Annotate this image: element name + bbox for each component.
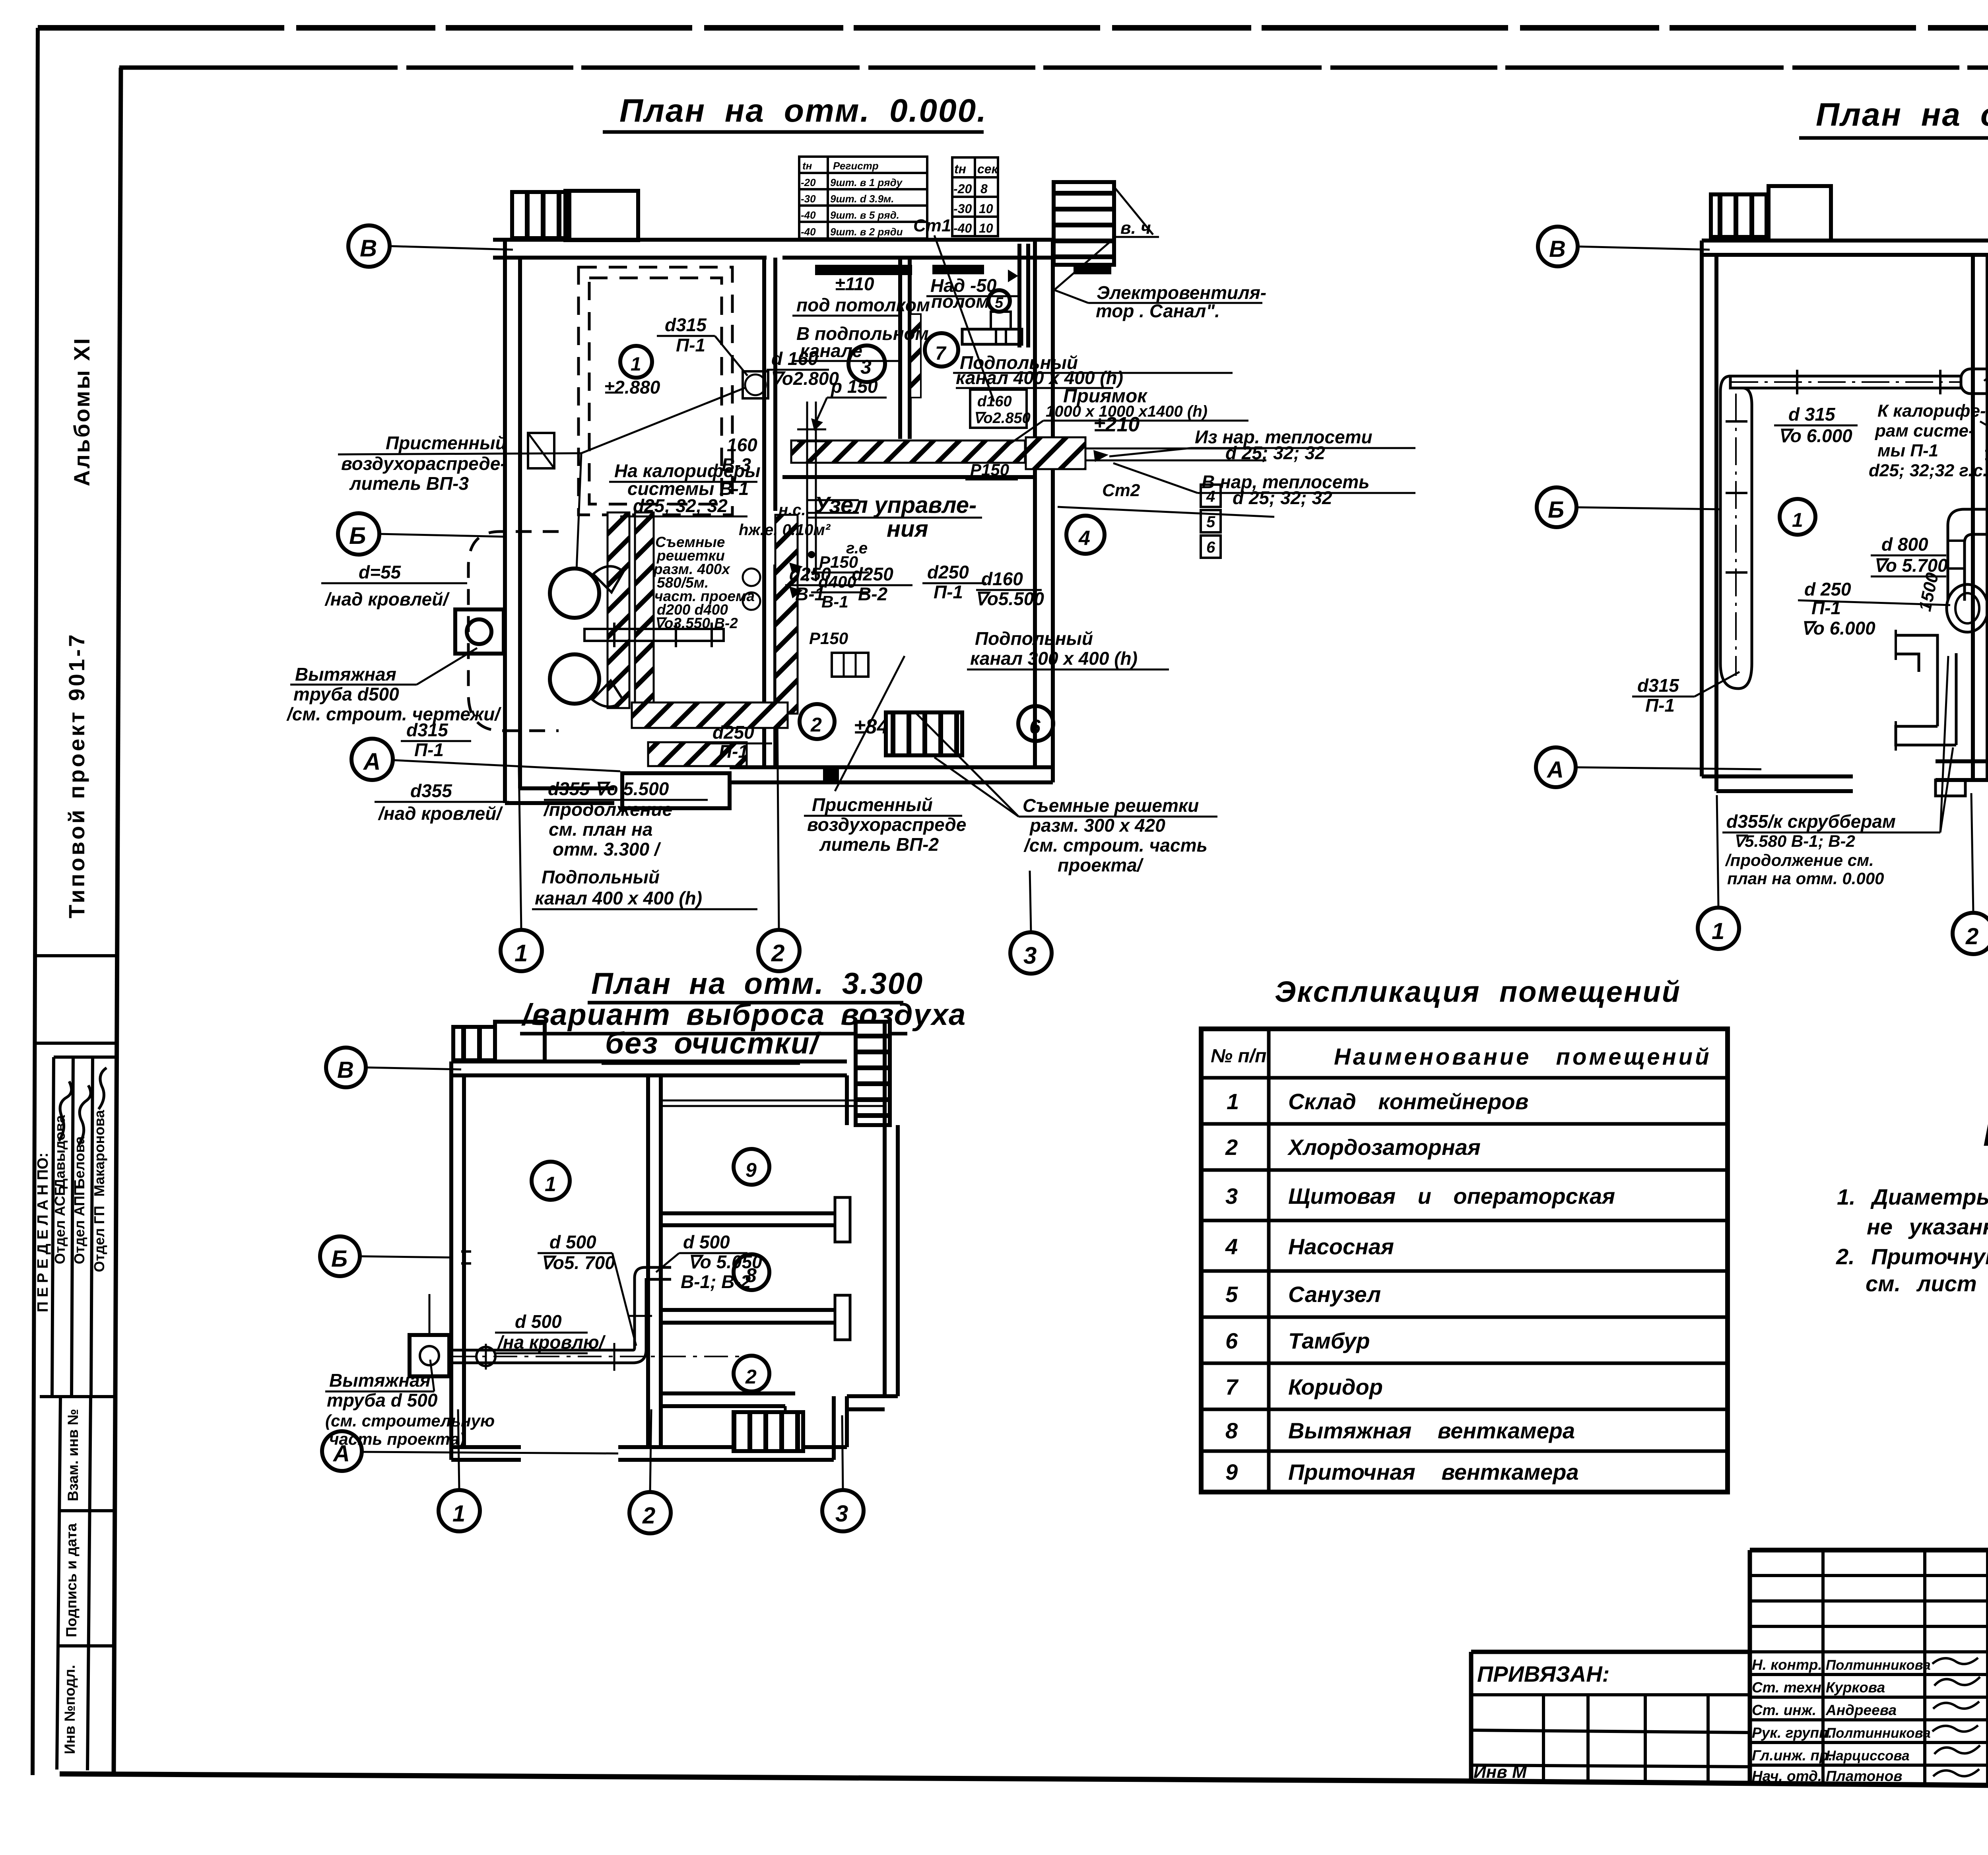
svg-text:5: 5 xyxy=(1206,513,1215,531)
svg-text:мы П-1: мы П-1 xyxy=(1877,441,1938,460)
axis circle 2 xyxy=(1953,913,1988,954)
svg-text:∇о 5.700: ∇о 5.700 xyxy=(1873,555,1948,576)
svg-text:Давыдова: Давыдова xyxy=(52,1115,68,1189)
svg-text:∇о5.500: ∇о5.500 xyxy=(975,588,1044,609)
inner wall vertical right xyxy=(898,258,902,439)
svg-text:Подпольный: Подпольный xyxy=(975,628,1093,649)
svg-text:8: 8 xyxy=(980,182,988,196)
svg-text:/над кровлей/: /над кровлей/ xyxy=(324,589,450,609)
svg-text:без очистки/: без очистки/ xyxy=(605,1026,821,1060)
room9 wall xyxy=(1988,286,1988,290)
svg-text:Типовой проект 901-7: Типовой проект 901-7 xyxy=(64,632,89,918)
room circle 1 xyxy=(620,346,652,378)
svg-text:d25; 32; 32: d25; 32; 32 xyxy=(633,495,728,516)
svg-text:-40: -40 xyxy=(801,209,816,221)
bottom-right wall xyxy=(730,765,1053,769)
radiator top-left xyxy=(453,1027,495,1060)
svg-text:∇о 5.050: ∇о 5.050 xyxy=(688,1252,762,1272)
svg-text:труба d 500: труба d 500 xyxy=(327,1390,438,1411)
svg-text:Куркова: Куркова xyxy=(1826,1679,1885,1696)
svg-text:d 25; 32; 32: d 25; 32; 32 xyxy=(1225,442,1325,463)
svg-text:tн: tн xyxy=(954,162,966,176)
svg-text:6: 6 xyxy=(1225,1328,1238,1353)
svg-text:проекта/: проекта/ xyxy=(1058,855,1144,875)
main duct xyxy=(449,1349,633,1352)
svg-text:Инв №подл.: Инв №подл. xyxy=(62,1665,78,1754)
svg-text:d 500: d 500 xyxy=(549,1232,596,1252)
bottom-left wall xyxy=(505,801,614,805)
svg-text:Пристенный: Пристенный xyxy=(386,433,507,453)
axis circle Б xyxy=(1537,487,1576,527)
svg-text:∇5.580 В-1; В-2: ∇5.580 В-1; В-2 xyxy=(1734,832,1855,850)
svg-text:План на отм. 0.000.: План на отм. 0.000. xyxy=(619,93,987,129)
svg-text:Вытяжная: Вытяжная xyxy=(329,1370,431,1391)
registr table xyxy=(799,157,927,239)
svg-text:/см. строит. чертежи/: /см. строит. чертежи/ xyxy=(286,704,501,724)
EXPL xyxy=(1201,975,1728,1492)
svg-text:план на отм. 0.000: план на отм. 0.000 xyxy=(1727,869,1884,888)
room circle 2 xyxy=(800,704,835,739)
svg-text:9шт. d 3.9м.: 9шт. d 3.9м. xyxy=(830,193,894,205)
svg-text:2: 2 xyxy=(810,714,822,736)
svg-text:160: 160 xyxy=(727,435,757,455)
stairs top right xyxy=(1054,182,1114,265)
left wall xyxy=(449,1061,453,1460)
svg-text:d250: d250 xyxy=(927,562,969,582)
svg-text:К калорифе-: К калорифе- xyxy=(1877,401,1986,421)
svg-text:1. Диаметры труб системы: 1. Диаметры труб системы отопления, xyxy=(1837,1184,1988,1209)
svg-text:-30: -30 xyxy=(953,202,972,216)
svg-text:9шт. в 2 ряди: 9шт. в 2 ряди xyxy=(830,226,903,238)
svg-text:Подпись и дата: Подпись и дата xyxy=(63,1523,80,1637)
svg-text:d355 ∇о 5.500: d355 ∇о 5.500 xyxy=(548,778,669,799)
room circle 6 xyxy=(1018,706,1053,741)
dark bands under top wall xyxy=(815,265,912,275)
svg-text:Полтинникова: Полтинникова xyxy=(1826,1657,1931,1673)
wall above stairs room 2 xyxy=(661,1391,795,1395)
svg-text:1: 1 xyxy=(452,1501,465,1527)
outer top of title block xyxy=(1750,1548,1988,1552)
svg-text:10: 10 xyxy=(979,221,993,235)
svg-text:Санузел: Санузел xyxy=(1288,1282,1381,1307)
svg-text:1: 1 xyxy=(1792,509,1803,531)
signature rows xyxy=(1752,1657,1931,1784)
TITLES xyxy=(520,93,1988,1063)
svg-text:труба d500: труба d500 xyxy=(293,684,399,704)
center elbow duct complex xyxy=(1948,509,1988,601)
svg-text:Альбомы XI: Альбомы XI xyxy=(69,337,94,486)
thin heat pipe xyxy=(1985,450,1988,452)
stairs bottom middle xyxy=(886,712,962,755)
outer left border xyxy=(33,28,38,1775)
radiator top-left xyxy=(1711,194,1767,237)
outer top dashed border xyxy=(38,25,1988,31)
svg-text:Ст1: Ст1 xyxy=(913,216,951,235)
svg-text:В-3: В-3 xyxy=(722,454,751,475)
room circles 3,7,5 xyxy=(848,345,885,382)
svg-text:1: 1 xyxy=(1712,918,1724,944)
svg-text:4: 4 xyxy=(1225,1234,1238,1259)
tall stairs top right xyxy=(856,1022,890,1125)
svg-text:Р150: Р150 xyxy=(809,629,848,648)
svg-text:∇о3.550 В-2: ∇о3.550 В-2 xyxy=(654,615,738,631)
svg-text:воздухораспреде: воздухораспреде xyxy=(807,814,966,835)
svg-text:d355: d355 xyxy=(410,780,452,801)
svg-text:1: 1 xyxy=(545,1173,556,1196)
bottom frame line xyxy=(60,1774,1988,1790)
svg-text:d250: d250 xyxy=(852,564,893,584)
svg-text:1: 1 xyxy=(1227,1089,1239,1114)
svg-text:2: 2 xyxy=(1965,924,1978,949)
svg-text:Рук. групп.: Рук. групп. xyxy=(1752,1725,1832,1741)
svg-text:Отдел ГП: Отдел ГП xyxy=(91,1206,107,1272)
room 1 dashed rect xyxy=(579,267,732,515)
svg-text:Андреева: Андреева xyxy=(1825,1702,1897,1718)
svg-text:П-1: П-1 xyxy=(1645,695,1675,716)
svg-text:-20: -20 xyxy=(801,177,816,188)
inner wall vertical mid xyxy=(762,258,766,767)
top wall xyxy=(1702,239,1988,243)
svg-text:часть проекта): часть проекта) xyxy=(329,1430,465,1448)
svg-text:Р150: Р150 xyxy=(970,460,1009,479)
svg-text:Пристенный: Пристенный xyxy=(812,794,933,815)
svg-text:tн: tн xyxy=(802,160,812,172)
axis circle B xyxy=(348,225,390,267)
axis circle B xyxy=(326,1048,366,1087)
svg-text:литель ВП-3: литель ВП-3 xyxy=(349,473,469,494)
boxes 4 5 6 xyxy=(1201,485,1221,507)
svg-text:Примечания:: Примечания: xyxy=(1983,1118,1988,1153)
svg-text:П Е Р Е Д Е Л А Н ПО:: П Е Р Е Д Е Л А Н ПО: xyxy=(35,1153,51,1312)
top wall xyxy=(451,1059,847,1063)
svg-text:канал 400 х 400 (h): канал 400 х 400 (h) xyxy=(535,888,702,908)
PLAN1 xyxy=(338,157,1274,974)
wall under room 9 xyxy=(661,1211,835,1215)
svg-text:Б: Б xyxy=(349,522,366,549)
left wall xyxy=(503,240,507,803)
axis circle 1 xyxy=(501,930,542,971)
svg-text:3: 3 xyxy=(835,1501,848,1527)
svg-text:н.с.: н.с. xyxy=(779,501,806,519)
svg-text:9шт. в 1 ряду: 9шт. в 1 ряду xyxy=(830,177,903,188)
svg-text:Хлордозаторная: Хлордозаторная xyxy=(1287,1135,1481,1160)
svg-text:d=55: d=55 xyxy=(359,562,402,582)
svg-text:Коридор: Коридор xyxy=(1288,1374,1383,1399)
axis circle 1 xyxy=(439,1490,480,1531)
svg-text:канал 300 х 400 (h): канал 300 х 400 (h) xyxy=(970,648,1138,669)
svg-text:d 315: d 315 xyxy=(1788,404,1836,425)
VP-2 distributor xyxy=(832,653,868,677)
svg-text:d355/к скрубберам: d355/к скрубберам xyxy=(1726,811,1896,832)
grille circles xyxy=(743,569,760,586)
heat pipes out right xyxy=(1085,448,1266,450)
svg-text:/на кровлю/: /на кровлю/ xyxy=(497,1332,606,1352)
svg-text:d250: d250 xyxy=(712,722,754,743)
left wall xyxy=(1700,241,1704,776)
black square bottom wall xyxy=(823,767,839,782)
axis circle 3 xyxy=(1010,932,1052,974)
svg-text:сек: сек xyxy=(977,162,999,176)
svg-text:Регистр: Регистр xyxy=(833,160,879,172)
svg-text:канале: канале xyxy=(800,340,862,361)
svg-text:Ст2: Ст2 xyxy=(1102,481,1140,500)
svg-text:отм. 3.300 /: отм. 3.300 / xyxy=(553,839,661,860)
top wall xyxy=(493,238,1053,242)
svg-text:Экспликация помещений: Экспликация помещений xyxy=(1275,975,1681,1008)
axis circle Б xyxy=(338,513,379,555)
svg-text:2: 2 xyxy=(1225,1135,1238,1160)
svg-text:d 800: d 800 xyxy=(1881,534,1928,555)
svg-text:±2.880: ±2.880 xyxy=(604,377,660,398)
svg-text:ния: ния xyxy=(887,516,928,542)
svg-text:7: 7 xyxy=(1225,1374,1239,1399)
svg-text:±110: ±110 xyxy=(835,274,874,294)
bottom-right wall xyxy=(618,1445,847,1449)
svg-text:-40: -40 xyxy=(801,226,816,238)
svg-text:d315: d315 xyxy=(665,314,707,335)
svg-text:литель ВП-2: литель ВП-2 xyxy=(819,834,939,855)
inner vertical wall xyxy=(1971,255,1975,778)
elbow up xyxy=(633,1278,646,1363)
svg-text:Вытяжная венткамера: Вытяжная венткамера xyxy=(1288,1418,1575,1443)
top bump xyxy=(1769,186,1831,241)
svg-text:Платонов: Платонов xyxy=(1826,1768,1903,1784)
svg-text:d160: d160 xyxy=(977,393,1012,410)
pipe risers uzel upravleniya xyxy=(806,402,808,581)
bottom protrusion xyxy=(622,773,730,808)
svg-text:В: В xyxy=(1549,236,1566,262)
svg-text:6: 6 xyxy=(1029,716,1041,738)
bottom-left wall xyxy=(451,1445,521,1449)
svg-text:воздухораспреде-: воздухораспреде- xyxy=(341,453,507,474)
svg-text:В-1: В-1 xyxy=(821,592,848,611)
svg-text:d 25; 32; 32: d 25; 32; 32 xyxy=(1233,487,1332,508)
svg-text:р 150: р 150 xyxy=(830,376,878,397)
axis circle Б xyxy=(320,1236,360,1276)
svg-text:2: 2 xyxy=(642,1503,655,1529)
svg-text:d 250: d 250 xyxy=(1804,579,1851,600)
bottom-right wall xyxy=(1936,759,1988,763)
svg-text:Б: Б xyxy=(331,1246,348,1272)
TBLOCK xyxy=(1471,1550,1988,1839)
right wall xyxy=(883,1022,887,1396)
d160 2.850 small right xyxy=(970,390,1027,428)
room circle 4 xyxy=(1066,516,1105,554)
axis circle A xyxy=(351,739,393,780)
svg-text:6: 6 xyxy=(1206,539,1215,556)
wall room5/7 xyxy=(1017,244,1021,347)
svg-text:∇о 6.000: ∇о 6.000 xyxy=(1801,618,1875,638)
svg-text:В: В xyxy=(337,1057,354,1083)
attribute strip xyxy=(57,1397,60,1770)
svg-text:рам систе-: рам систе- xyxy=(1875,421,1974,440)
svg-text:Щитовая и операторская: Щитовая и операторская xyxy=(1288,1184,1615,1209)
dashed duct loop left xyxy=(468,532,559,731)
k kaloriferam xyxy=(1869,401,1988,480)
inner wall horizontal below rooms 3/7 xyxy=(782,475,1035,479)
svg-text:1000 х 1000 х1400 (h): 1000 х 1000 х1400 (h) xyxy=(1046,403,1208,420)
fan circles xyxy=(550,569,599,618)
svg-text:Нач. отд.: Нач. отд. xyxy=(1752,1768,1822,1784)
svg-text:под потолком: под потолком xyxy=(796,295,930,315)
svg-text:∇о2.800: ∇о2.800 xyxy=(770,368,839,389)
svg-text:d 500: d 500 xyxy=(515,1311,562,1332)
hatched shaft walls xyxy=(608,512,629,708)
supply duct horizontal xyxy=(1730,376,1961,388)
svg-text:канал 400 х 400 (h): канал 400 х 400 (h) xyxy=(956,367,1123,388)
thin beam line room9 xyxy=(661,1100,885,1102)
svg-text:Б: Б xyxy=(1548,497,1564,523)
svg-text:(см. строительную: (см. строительную xyxy=(325,1411,495,1430)
sidebar stamp table xyxy=(36,954,116,957)
svg-text:разм. 300 х 420: разм. 300 х 420 xyxy=(1029,815,1165,836)
svg-text:Наименование помещений: Наименование помещений xyxy=(1334,1044,1712,1070)
svg-text:hж.е. 0.10м²: hж.е. 0.10м² xyxy=(739,521,831,539)
svg-text:В-1: В-1 xyxy=(795,584,825,604)
axis circle A xyxy=(322,1431,362,1471)
privyazan grid xyxy=(1471,1693,1750,1696)
svg-text:/над кровлей/: /над кровлей/ xyxy=(378,803,503,824)
svg-text:-20: -20 xyxy=(953,182,972,196)
svg-text:в. ч: в. ч xyxy=(1120,218,1151,238)
room circles xyxy=(532,1162,570,1200)
svg-text:/продолжение см.: /продолжение см. xyxy=(1725,851,1874,869)
svg-text:№ п/п: № п/п xyxy=(1211,1046,1266,1067)
svg-text:В: В xyxy=(360,235,377,262)
fan box left xyxy=(410,1335,449,1376)
wall under room 8 xyxy=(1988,631,1988,635)
S duct lower left xyxy=(1896,635,1938,653)
svg-text:Ст. техн.: Ст. техн. xyxy=(1752,1679,1825,1696)
svg-text:2. Приточную и вытяжку: 2. Приточную и вытяжку венткамеры xyxy=(1836,1244,1988,1269)
svg-text:В-2: В-2 xyxy=(858,584,888,604)
svg-text:3: 3 xyxy=(1225,1184,1238,1209)
svg-text:В-1; В-2: В-1; В-2 xyxy=(681,1271,751,1292)
svg-text:Макаронова: Макаронова xyxy=(91,1110,107,1197)
svg-text:1: 1 xyxy=(631,354,641,375)
svg-text:d160: d160 xyxy=(981,569,1023,589)
axis circle A xyxy=(1536,747,1576,787)
svg-text:d25; 32;32 г.с.: d25; 32;32 г.с. xyxy=(1869,461,1988,480)
svg-text:/см. строит. часть: /см. строит. часть xyxy=(1023,835,1208,856)
svg-text:9шт. в 5 ряд.: 9шт. в 5 ряд. xyxy=(830,209,899,221)
svg-text:см. план на: см. план на xyxy=(549,819,652,840)
svg-text:Инв М: Инв М xyxy=(1474,1762,1527,1782)
svg-text:Насосная: Насосная xyxy=(1288,1234,1394,1259)
svg-text:Приточная венткамера: Приточная венткамера xyxy=(1288,1459,1579,1484)
small tn/sek table xyxy=(952,157,998,236)
svg-text:d315: d315 xyxy=(1637,675,1679,696)
pipe with flanges xyxy=(584,629,724,641)
axis circle 2 xyxy=(758,930,800,971)
svg-text:5: 5 xyxy=(1225,1282,1238,1307)
svg-text:-40: -40 xyxy=(953,221,972,235)
svg-text:/продолжение: /продолжение xyxy=(543,799,672,820)
inner top border xyxy=(119,66,1988,70)
svg-text:Отдел АПП: Отдел АПП xyxy=(71,1186,87,1264)
svg-text:А: А xyxy=(1546,757,1564,783)
svg-text:10: 10 xyxy=(979,202,993,216)
axis circle 3 xyxy=(822,1490,864,1531)
signature table xyxy=(1748,1550,1752,1783)
svg-text:d250: d250 xyxy=(789,564,831,584)
damper square room1 xyxy=(743,371,768,398)
radiator block top-left xyxy=(512,192,569,238)
svg-text:∇о5. 700: ∇о5. 700 xyxy=(541,1252,615,1273)
inner vertical wall xyxy=(646,1075,650,1447)
top bump xyxy=(495,1022,545,1061)
inner left border xyxy=(114,68,121,1773)
fan shaft box xyxy=(455,609,504,654)
svg-text:Н. контр.: Н. контр. xyxy=(1752,1657,1822,1673)
svg-text:-30: -30 xyxy=(801,193,816,205)
axis circle B xyxy=(1538,227,1578,266)
svg-text:П-1: П-1 xyxy=(414,739,444,760)
axis circle 1 xyxy=(1698,908,1739,949)
svg-text:Подпольный: Подпольный xyxy=(542,867,660,887)
svg-text:План на отм 3.300: План на отм 3.300 xyxy=(1816,97,1988,133)
svg-text:9: 9 xyxy=(745,1159,757,1181)
svg-text:Отдел АСБ: Отдел АСБ xyxy=(52,1186,68,1264)
svg-text:Вытяжная: Вытяжная xyxy=(295,664,396,685)
svg-text:не указанные на планах,: не указанные на планах, принять d=15мм xyxy=(1867,1214,1988,1239)
axis circle 2 xyxy=(629,1492,671,1533)
svg-text:ПРИВЯЗАН:: ПРИВЯЗАН: xyxy=(1477,1661,1609,1686)
svg-text:Гл.инж. пр.: Гл.инж. пр. xyxy=(1752,1747,1833,1764)
svg-text:9: 9 xyxy=(1225,1459,1238,1484)
svg-text:П-1: П-1 xyxy=(934,582,963,602)
svg-text:3: 3 xyxy=(1023,942,1037,969)
wall under room 8 xyxy=(661,1308,835,1312)
svg-text:8: 8 xyxy=(1225,1418,1238,1443)
svg-text:А: А xyxy=(363,748,381,775)
svg-text:∇о2.850: ∇о2.850 xyxy=(973,410,1031,427)
svg-text:Съемные решетки: Съемные решетки xyxy=(1023,795,1199,816)
svg-text:П-1: П-1 xyxy=(676,335,705,355)
svg-text:Тамбур: Тамбур xyxy=(1288,1328,1370,1353)
svg-text:Ст. инж.: Ст. инж. xyxy=(1752,1702,1816,1718)
top vestibule bump xyxy=(565,191,638,240)
svg-text:Электровентиля-: Электровентиля- xyxy=(1097,282,1266,303)
svg-text:Взам. инв №: Взам. инв № xyxy=(65,1409,81,1502)
svg-text:Нарциссова: Нарциссова xyxy=(1826,1748,1910,1764)
svg-text:см. лист 0В-5: см. лист 0В-5 xyxy=(1866,1271,1988,1296)
svg-text:4: 4 xyxy=(1078,527,1090,550)
right wall xyxy=(1033,240,1037,767)
svg-text:Склад контейнеров: Склад контейнеров xyxy=(1288,1089,1528,1114)
съемные решетки mid block xyxy=(653,534,755,631)
svg-text:Узел управле-: Узел управле- xyxy=(814,492,977,518)
svg-text:7: 7 xyxy=(935,343,947,364)
svg-text:∇о 6.000: ∇о 6.000 xyxy=(1778,425,1852,446)
svg-text:г.е: г.е xyxy=(846,539,868,557)
bottom-left wall xyxy=(1702,774,1853,778)
NOTES xyxy=(1836,1118,1988,1296)
svg-text:Полтинникова: Полтинникова xyxy=(1826,1725,1931,1741)
PLAN2 xyxy=(1536,184,1988,954)
VP-3 wall distributor xyxy=(528,433,554,468)
svg-text:2: 2 xyxy=(771,940,784,966)
svg-text:План на отм. 3.300: План на отм. 3.300 xyxy=(591,967,924,1001)
stairs bottom xyxy=(734,1412,803,1451)
svg-text:2: 2 xyxy=(745,1366,757,1388)
svg-text:1: 1 xyxy=(514,940,528,966)
PLAN3 xyxy=(320,1022,898,1533)
svg-text:d 500: d 500 xyxy=(683,1232,730,1252)
svg-text:d315: d315 xyxy=(406,720,448,740)
